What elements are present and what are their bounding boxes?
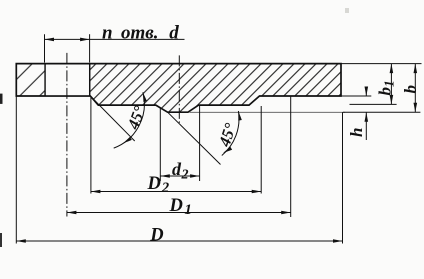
bolt hole centerline	[66, 53, 68, 217]
scan artifact left edge lower	[0, 233, 2, 247]
svg-text:45°: 45°	[123, 103, 149, 133]
svg-text:D: D	[149, 225, 163, 245]
n otv d: extension line left	[44, 34, 46, 62]
svg-text:отв.: отв.	[121, 22, 159, 43]
d2 extension lines	[159, 108, 161, 182]
scan artifact top right faint	[345, 8, 349, 13]
flange section hatched area left rim cell	[16, 64, 45, 96]
dimension b	[414, 64, 416, 113]
top edge extension to right	[341, 63, 422, 65]
n otv d: extension line right	[89, 34, 91, 62]
bolt hole left edge	[44, 64, 46, 96]
svg-text:D2: D2	[147, 174, 170, 196]
D2 dimension line	[91, 191, 261, 193]
left 45 arc	[114, 92, 145, 148]
svg-text:d2: d2	[172, 159, 189, 182]
bolt hole white fill	[46, 65, 89, 96]
right 45 arc	[222, 111, 239, 156]
section outline	[16, 64, 341, 113]
D2 extension lines	[90, 97, 92, 194]
bolt hole right edge	[89, 64, 91, 96]
groove bottom reference line right	[190, 111, 346, 113]
D1 dimension line	[67, 212, 291, 214]
left 45 construction diagonal	[90, 96, 134, 141]
svg-text:b: b	[401, 85, 420, 94]
flange section hatched area main body	[90, 64, 341, 113]
svg-text:n: n	[102, 22, 113, 43]
svg-text:45°: 45°	[214, 121, 240, 150]
flange centerline	[178, 55, 180, 124]
svg-text:d: d	[169, 22, 179, 43]
rim bottom extension right	[341, 95, 371, 97]
scan artifact left edge upper	[0, 94, 3, 104]
right 45 construction diagonal	[168, 112, 221, 164]
dimension h (outside arrows)	[365, 88, 367, 97]
svg-text:b1: b1	[376, 80, 397, 95]
svg-text:h: h	[347, 128, 366, 137]
D left extension line	[15, 96, 17, 244]
boss bottom reference line right	[350, 103, 397, 105]
dimension b1	[390, 64, 392, 105]
D right extension line	[342, 112, 344, 243]
D1 right extension line	[290, 96, 292, 217]
svg-text:D1: D1	[169, 196, 192, 218]
d2 dimension line	[160, 175, 199, 177]
D dimension line	[16, 240, 342, 242]
n otv d: dimension line with shelf	[45, 38, 185, 40]
